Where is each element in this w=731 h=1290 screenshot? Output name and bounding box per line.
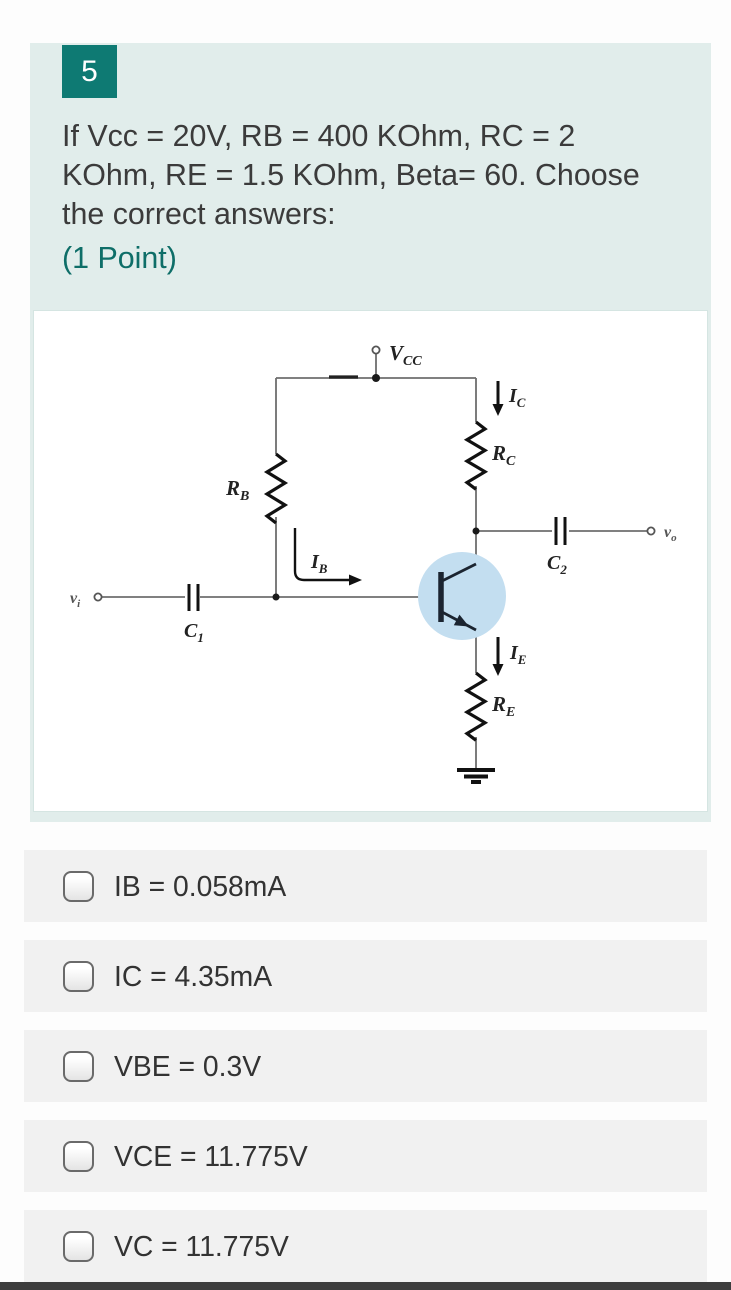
svg-text:C2: C2	[547, 552, 567, 577]
capacitor C1	[189, 584, 198, 611]
svg-text:RB: RB	[225, 476, 249, 504]
svg-text:vi: vi	[70, 590, 81, 610]
ground	[457, 770, 495, 782]
wire collector node to transistor	[475, 531, 477, 564]
capacitor C2	[556, 517, 565, 545]
wire vi terminal to C1	[102, 596, 185, 598]
wire C2 to vo terminal	[569, 530, 647, 532]
wire RE to ground	[475, 737, 477, 768]
svg-text:vo: vo	[664, 524, 677, 544]
terminal Vcc	[372, 346, 379, 353]
current direction dash on top wire	[329, 375, 358, 378]
wire emitter down	[475, 631, 477, 673]
resistor RC	[467, 422, 485, 489]
node junction collector	[473, 528, 480, 535]
wire C1 to base node	[200, 596, 276, 598]
current arrow IB	[295, 528, 362, 586]
node junction top (Vcc)	[372, 374, 380, 382]
svg-text:RC: RC	[491, 441, 516, 469]
svg-text:IE: IE	[509, 642, 527, 667]
wire output node to C2	[476, 530, 552, 532]
wire Vcc stub	[375, 354, 377, 378]
svg-text:IC: IC	[508, 385, 526, 410]
resistor RE	[467, 673, 485, 740]
transistor highlight circle	[418, 552, 506, 640]
wire top horizontal	[276, 377, 476, 379]
current arrow IC	[493, 381, 504, 416]
current arrow IE	[493, 637, 504, 676]
svg-text:VCC: VCC	[389, 341, 422, 369]
svg-text:C1: C1	[184, 620, 204, 645]
svg-text:RE: RE	[491, 692, 515, 720]
wire right branch upper	[475, 378, 477, 422]
wire left branch upper	[275, 378, 277, 454]
transistor Q1	[441, 564, 476, 632]
terminal vo	[647, 527, 654, 534]
resistor RB	[267, 454, 285, 523]
svg-text:IB: IB	[310, 551, 328, 576]
wire base node to transistor base	[276, 596, 438, 598]
node junction base	[273, 594, 280, 601]
wire right branch RC to collector node	[475, 486, 477, 531]
terminal vi	[94, 593, 101, 600]
wire left branch lower	[275, 517, 277, 597]
